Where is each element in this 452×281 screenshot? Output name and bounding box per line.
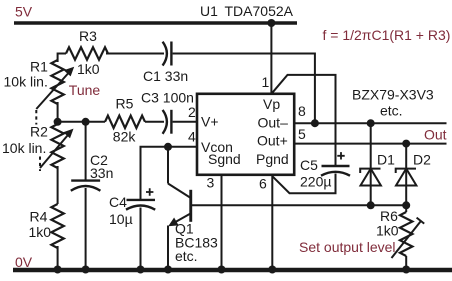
svg-text:Sgnd: Sgnd <box>208 151 241 167</box>
svg-text:C1 33n: C1 33n <box>143 68 188 84</box>
wire: C5 bottom around to pin 6 <box>272 174 335 194</box>
junction: pin 6 on 0V rail <box>268 266 276 274</box>
polarity plus C5 <box>337 152 344 159</box>
svg-text:V+: V+ <box>201 114 219 130</box>
svg-text:R3: R3 <box>79 28 97 44</box>
svg-text:82k: 82k <box>113 129 137 145</box>
resistor R3 <box>66 47 108 59</box>
R6 preset wiper <box>392 218 425 258</box>
wire: Vcon node down to Q1 collector <box>167 147 169 184</box>
svg-text:U1: U1 <box>200 3 218 19</box>
junction: C2 branch node <box>82 118 90 126</box>
zener diode D1 <box>360 169 381 186</box>
wire: Q1 emitter to 0V <box>167 226 169 271</box>
svg-text:etc.: etc. <box>380 103 403 119</box>
wire: node to R5 <box>58 121 105 123</box>
junction: D2 cathode on Out+ line <box>402 140 410 148</box>
wire: R6 bottom lead to 0V <box>405 256 407 270</box>
wire: C2 bottom to 0V <box>85 188 87 270</box>
capacitor C3 <box>163 110 172 134</box>
wire: R2 bottom to R4 top <box>57 166 59 204</box>
polarity plus C4 <box>146 188 153 195</box>
wire: pin 1 Vp over to C5 top <box>271 75 335 166</box>
svg-text:Tune: Tune <box>69 82 101 98</box>
gang dashed link below R2 wiper <box>39 157 41 172</box>
svg-text:1k0: 1k0 <box>376 223 399 239</box>
svg-text:etc.: etc. <box>175 248 198 264</box>
svg-text:BZX79-X3V3: BZX79-X3V3 <box>352 87 434 103</box>
svg-text:6: 6 <box>259 176 267 192</box>
svg-text:8: 8 <box>298 103 306 119</box>
svg-text:C3 100n: C3 100n <box>141 90 194 106</box>
junction: Q1 emitter on 0V rail <box>164 266 172 274</box>
svg-text:2: 2 <box>188 104 196 120</box>
wire: R6 top lead <box>405 205 407 212</box>
wire: R1 bottom to node <box>57 102 59 122</box>
preset R6 <box>400 212 412 256</box>
wire: C3 to IC pin 2 <box>173 121 197 123</box>
wire: 5V rail to pin 1 <box>270 23 272 94</box>
capacitor C5 <box>321 166 350 176</box>
svg-text:f = 1/2πC1(R1 + R3): f = 1/2πC1(R1 + R3) <box>323 27 451 43</box>
svg-text:Out: Out <box>424 127 447 143</box>
svg-text:Set output level: Set output level <box>299 239 396 255</box>
svg-text:5V: 5V <box>15 4 33 20</box>
svg-text:4: 4 <box>188 129 196 145</box>
resistor R5 <box>105 116 145 128</box>
wire: R5 to C3 <box>145 121 164 123</box>
svg-text:R6: R6 <box>380 208 398 224</box>
svg-text:R4: R4 <box>30 209 48 225</box>
wire: Out+ line from pin 5 <box>294 143 446 145</box>
svg-text:10k lin.: 10k lin. <box>4 74 48 90</box>
R2 wiper arrow <box>40 129 74 168</box>
transistor Q1 <box>168 184 192 227</box>
svg-text:10µ: 10µ <box>109 211 133 227</box>
svg-text:R1: R1 <box>30 59 48 75</box>
svg-text:Pgnd: Pgnd <box>256 151 289 167</box>
wire: D1 branch <box>370 123 372 205</box>
svg-text:D2: D2 <box>413 152 431 168</box>
junction: D1 cathode on Out- line <box>367 119 375 127</box>
wire: Q1 base line to D1/D2/R6 <box>192 204 406 206</box>
junction: Q1 collector branch on Vcon line <box>164 143 172 151</box>
svg-text:R5: R5 <box>116 96 134 112</box>
junction: R6 on 0V rail <box>402 266 410 274</box>
junction: C4 on 0V rail <box>137 266 145 274</box>
svg-text:1k0: 1k0 <box>29 224 52 240</box>
svg-text:220µ: 220µ <box>300 174 331 190</box>
svg-text:Vp: Vp <box>263 96 280 112</box>
wire: pin 3 to 0V <box>221 175 223 270</box>
junction: supply tap on 5V rail <box>267 19 275 27</box>
svg-text:R2: R2 <box>30 124 48 140</box>
0V ground rail <box>13 268 452 272</box>
junction: D2 anode on base line <box>402 201 410 209</box>
svg-text:10k lin.: 10k lin. <box>2 140 46 156</box>
wire: pin 6 to 0V <box>271 175 273 270</box>
junction: C2 on 0V rail <box>82 266 90 274</box>
resistor R4 <box>51 204 63 248</box>
svg-text:0V: 0V <box>15 254 33 270</box>
5V supply rail <box>14 21 297 24</box>
wire: C2 branch down <box>85 122 87 180</box>
wire: R4 bottom to 0V <box>57 246 59 270</box>
wire: Vcon line with bend down to C4 <box>141 147 198 200</box>
IC U1 body <box>197 94 294 175</box>
junction: C1 feedback on Out- line <box>311 119 319 127</box>
svg-text:1k0: 1k0 <box>77 61 100 77</box>
svg-text:D1: D1 <box>377 152 395 168</box>
wire: D2 branch <box>405 144 407 206</box>
svg-text:5: 5 <box>298 126 306 142</box>
potentiometer R2 <box>51 124 63 168</box>
svg-text:Out+: Out+ <box>257 133 288 149</box>
capacitor C2 <box>71 181 101 191</box>
svg-text:Out–: Out– <box>258 115 289 131</box>
svg-text:C4: C4 <box>109 194 127 210</box>
wire: C4 bottom to 0V <box>140 208 142 271</box>
junction: R4 on 0V rail <box>54 266 62 274</box>
wire: Out- line from pin 8 <box>294 122 446 124</box>
junction: D1 anode on base line <box>367 201 375 209</box>
wire: R3 left end bend down to R1 top <box>58 54 66 63</box>
capacitor C4 <box>126 200 155 210</box>
svg-text:TDA7052A: TDA7052A <box>225 3 294 19</box>
svg-text:C5: C5 <box>300 157 318 173</box>
capacitor C1 <box>163 42 172 66</box>
wire: R3 to C1 <box>106 53 164 55</box>
svg-text:33n: 33n <box>90 165 113 181</box>
svg-text:3: 3 <box>207 175 215 191</box>
junction: pin 3 on 0V rail <box>218 266 226 274</box>
junction: R1/R2/R5 node <box>54 118 62 126</box>
gang dashed link below R1 wiper <box>35 110 37 125</box>
R1 wiper arrow <box>36 67 74 109</box>
wire: C1 to feedback bend down to Out- line <box>173 54 315 124</box>
potentiometer R1 <box>51 60 63 104</box>
zener diode D2 <box>396 169 417 186</box>
svg-text:1: 1 <box>262 74 270 90</box>
